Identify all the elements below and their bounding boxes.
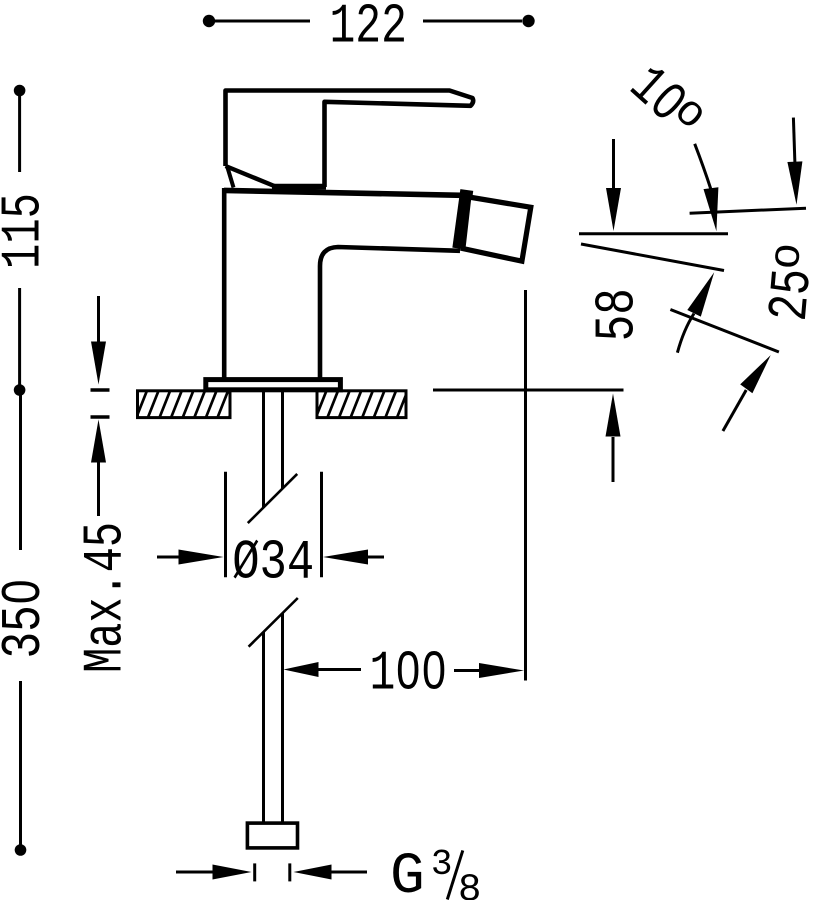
pipe break slash upper	[248, 474, 297, 523]
leader arrow from 10deg label to line A (curved)	[695, 144, 711, 189]
dimension 58: bottom arrowhead (up)	[606, 394, 621, 437]
text 25 degrees	[757, 241, 813, 324]
faucet body left edge	[222, 188, 227, 378]
dimension D34: left arrow shaft	[157, 556, 180, 559]
dimension 58: top arrowhead (down)	[606, 188, 621, 231]
dimension Max.45: upper arrowhead (down)	[91, 342, 106, 385]
supply pipe right wall lower	[281, 614, 284, 824]
dimension D34: left extension line	[224, 472, 227, 578]
arrow onto line E	[723, 390, 746, 431]
svg-text:350: 350	[0, 579, 56, 659]
faucet body top edge	[224, 190, 468, 195]
dimension D34: right extension line	[320, 472, 323, 578]
arrow onto line B	[793, 118, 795, 163]
dimension 100: left shaft	[317, 668, 361, 671]
faucet handle base thick segment	[272, 184, 326, 190]
dimension 350: upper line	[19, 394, 22, 550]
base flange	[206, 380, 341, 390]
dimension 115: bottom dot	[14, 384, 26, 396]
supply pipe left wall upper	[262, 392, 265, 508]
dimension G3/8: right tick	[288, 863, 291, 881]
dimension 58: bottom arrow shaft	[612, 437, 615, 482]
dimension D34: left arrowhead	[179, 550, 224, 565]
spout nozzle square	[463, 197, 531, 261]
dimension G3/8: right arrow shaft	[330, 871, 367, 874]
dimension 350: text	[0, 579, 56, 659]
faucet body spout arm underside and column right edge	[320, 247, 460, 378]
dimension G3/8: left tick	[253, 863, 256, 881]
dimension 350: bottom dot	[15, 844, 27, 856]
svg-text:58: 58	[586, 288, 650, 341]
dimension 122: right line	[423, 20, 522, 23]
svg-text:Max.45: Max.45	[73, 522, 137, 673]
svg-text:115: 115	[0, 193, 56, 269]
faucet handle front lower edge	[227, 167, 233, 188]
dimension G3/8: right arrowhead	[294, 865, 332, 880]
dimension 115: top dot	[14, 85, 26, 97]
dimension 115: upper line	[18, 95, 21, 172]
dimension 115: text	[0, 193, 56, 269]
svg-text:25: 25	[758, 266, 813, 323]
dimension 100: right arrowhead	[479, 663, 524, 678]
dimension 350: lower line	[19, 681, 22, 846]
mounting plane line right of plate	[433, 389, 624, 392]
dimension 100: right shaft	[454, 669, 480, 672]
dimension 115: lower line	[18, 288, 21, 386]
dimension 122: left line	[213, 20, 310, 23]
dimension 100: right extension line	[524, 290, 527, 681]
dimension Max.45: lower arrow shaft	[97, 463, 100, 517]
faucet handle bottom diagonal	[226, 166, 276, 187]
dimension D34: right arrowhead	[323, 550, 368, 565]
slanted 25-degree line E	[670, 310, 779, 353]
dimension G3/8: left arrowhead	[213, 865, 252, 880]
dimension 100: left arrowhead	[284, 662, 319, 677]
fraction slash	[447, 850, 463, 899]
dimension 122: right dot	[522, 15, 534, 27]
svg-text:3: 3	[431, 844, 453, 885]
dimension Max.45: text	[73, 522, 137, 673]
dimension 58: top arrow shaft	[612, 139, 615, 190]
dimension 122: left dot	[203, 15, 215, 27]
svg-text:G: G	[390, 845, 425, 900]
dimension D34: right arrow shaft	[366, 556, 384, 559]
dimension Max.45: upper tick	[91, 388, 110, 392]
dimension 58: text	[586, 288, 650, 341]
slanted 10-degree line C	[581, 244, 724, 271]
svg-text:122: 122	[329, 0, 407, 58]
text 10 degrees	[616, 53, 716, 152]
supply pipe right wall upper	[281, 392, 284, 489]
dimension Max.45: lower tick	[91, 415, 110, 419]
svg-text:8: 8	[458, 868, 481, 900]
supply pipe left wall lower	[262, 632, 265, 823]
horizontal reference line A	[579, 232, 728, 235]
leader arrow onto line C (curved)	[677, 314, 694, 353]
dimension G3/8: left arrow shaft	[176, 871, 215, 874]
svg-text:o: o	[762, 241, 813, 272]
slanted reference line B (upper right)	[690, 208, 806, 213]
pipe break slash lower	[249, 598, 298, 647]
svg-text:Ø34: Ø34	[232, 530, 314, 594]
pipe end fitting	[247, 823, 297, 848]
faucet handle outline	[226, 91, 474, 188]
spout joint thick bar	[459, 190, 467, 249]
dimension Max.45: lower arrowhead (up)	[91, 420, 106, 463]
dimension Max.45: upper arrow shaft	[97, 296, 100, 345]
